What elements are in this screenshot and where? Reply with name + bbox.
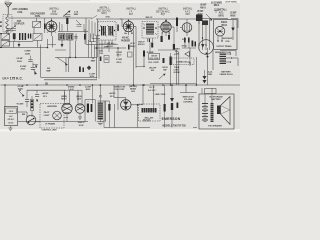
- svg-text:BALLAST: BALLAST: [145, 116, 155, 119]
- svg-text:+40 MF.: +40 MF.: [109, 92, 116, 95]
- tube V6 pins: [77, 101, 79, 104]
- svg-text:OR D.C.: OR D.C.: [8, 119, 15, 121]
- wire cbias drop: [189, 58, 191, 66]
- capacitor C2: [44, 24, 46, 30]
- wire V4 pins: [186, 19, 188, 23]
- junction dots y57.5: [69, 57, 70, 58]
- osc coil secondary T-coil: [33, 34, 42, 41]
- svg-text:.05 MF: .05 MF: [197, 11, 204, 13]
- svg-text:I.F. FRAME: I.F. FRAME: [45, 123, 55, 126]
- wire bottom bus middle: [104, 127, 150, 129]
- svg-text:COIL: COIL: [225, 41, 230, 43]
- IF shield cap C3: [66, 18, 68, 25]
- svg-text:200 V.: 200 V.: [116, 55, 122, 57]
- wire pt bottom corner: [103, 120, 105, 128]
- wire heater bus y90 left: [27, 89, 66, 91]
- comb pins: [226, 53, 230, 55]
- tuning eye V7: [121, 100, 131, 110]
- oscillator coil L2: [33, 22, 41, 28]
- tube V4 internals: [186, 24, 188, 32]
- coil L3 secondary: [67, 34, 74, 41]
- svg-text:VOL.CON.: VOL.CON.: [149, 58, 159, 60]
- svg-text:OUTPUT TRANS.: OUTPUT TRANS.: [216, 45, 232, 48]
- svg-text:.01 MF: .01 MF: [230, 12, 237, 14]
- svg-text:+40 MF.: +40 MF.: [42, 92, 49, 95]
- svg-text:470MΩ: 470MΩ: [68, 86, 75, 89]
- vertical pair x66: [65, 58, 67, 73]
- svg-text:SW.: SW.: [22, 114, 26, 116]
- svg-text:465 KC: 465 KC: [122, 37, 130, 40]
- svg-text:COIL: COIL: [17, 11, 23, 14]
- plug pin blob: [201, 44, 205, 48]
- arrow diag mid: [57, 58, 66, 64]
- svg-text:6A8 (: 6A8 (: [101, 12, 107, 15]
- svg-text:MMF): MMF): [130, 46, 136, 48]
- wire heater links: [36, 121, 40, 123]
- electrolytic C14: [91, 104, 93, 112]
- wire junction: [47, 47, 49, 49]
- capacitor C11: [25, 99, 29, 101]
- wire eye right: [131, 104, 143, 106]
- V4 cathode resistor R2: [184, 38, 186, 43]
- wire tube V5 pin drops: [64, 90, 66, 100]
- svg-text:(METAL): (METAL): [218, 8, 227, 11]
- cable junction dots: [198, 44, 199, 45]
- cable connector block: [202, 21, 208, 26]
- speaker tube circle: [215, 26, 225, 36]
- rectifier arrows component: [203, 76, 207, 80]
- filter frame: [85, 100, 95, 122]
- volume control box: [149, 54, 160, 60]
- svg-text:200V.: 200V.: [90, 76, 95, 78]
- tube V3 envelope: [161, 22, 171, 32]
- arrow down: [19, 91, 23, 95]
- svg-text:400V.: 400V.: [86, 88, 91, 91]
- gang condenser section 2: [1, 41, 10, 47]
- tube V1 grid internals: [48, 23, 50, 30]
- tube V4 envelope: [182, 23, 192, 33]
- speaker cone: [221, 97, 231, 125]
- heater dashed box: [40, 104, 64, 129]
- capacitor C15: [108, 104, 110, 111]
- wire vertical pair x96.5: [96, 36, 98, 79]
- junction dots left bus: [26, 84, 28, 86]
- chassis double line: [41, 77, 97, 79]
- IF transformer T2 shield box: [142, 22, 158, 39]
- svg-text:HEATERS: HEATERS: [47, 105, 57, 108]
- tuning capacitor C1A: [6, 29, 16, 31]
- arrow mid: [159, 75, 164, 80]
- svg-text:455 KC.: 455 KC.: [106, 45, 114, 48]
- wire left edge ticks: [0, 33, 2, 34]
- wire top bus middle: [96, 18, 196, 20]
- resistor ballast dashed box: [139, 104, 161, 121]
- svg-text:2ND I.F.: 2ND I.F.: [145, 17, 153, 19]
- wire loop to bus: [7, 14, 9, 15]
- wire corner C8: [40, 45, 42, 78]
- wire gang bus: [8, 41, 33, 43]
- capacitor C6 electrolytic: [176, 18, 178, 27]
- tube V5 envelope: [62, 103, 72, 113]
- svg-text:455 KC.: 455 KC.: [138, 43, 145, 46]
- wire box to switch: [18, 111, 28, 113]
- wire bottom bus right stub: [193, 127, 197, 129]
- diode arrow vol: [185, 52, 190, 57]
- svg-text:I.F.= 175 K.C.: I.F.= 175 K.C.: [3, 77, 23, 81]
- svg-text:(5-25 MMF): (5-25 MMF): [211, 2, 222, 4]
- svg-text:OSC.: OSC.: [106, 16, 111, 18]
- speaker plug circle: [199, 40, 214, 55]
- plug box small: [205, 89, 217, 94]
- vertical x207.5 and x213: [207, 48, 209, 85]
- wire x114 eye drop: [113, 85, 115, 98]
- wire x118 drop: [117, 85, 119, 101]
- wire tube V6 pin drops: [77, 90, 79, 100]
- tube V1 envelope: [46, 21, 57, 32]
- IF transformer T1 shield box: [98, 22, 116, 41]
- svg-text:VOL. CONT.: VOL. CONT.: [148, 62, 159, 64]
- svg-text:60 CY.: 60 CY.: [8, 122, 14, 124]
- capacitor T2 bottom: [151, 43, 153, 48]
- small cap symbol: [214, 8, 218, 10]
- wire x118 mid drop: [117, 48, 119, 58]
- wire y66.5 link: [136, 66, 143, 68]
- resistor R1 bars: [19, 33, 21, 40]
- wire V1 pins: [51, 18, 53, 21]
- battery B1 cells: [202, 104, 208, 122]
- svg-text:GB: GB: [45, 84, 49, 86]
- arrow to ground: [61, 40, 63, 44]
- ballast resistor R4: [142, 108, 157, 113]
- wire bus y47 left: [1, 47, 49, 49]
- T2 winding block: [146, 24, 154, 35]
- svg-text:250Ω: 250Ω: [25, 53, 30, 55]
- svg-text:COMP.: COMP.: [24, 51, 31, 53]
- capacitor C5: [128, 45, 130, 50]
- svg-text:TO ANT.: TO ANT.: [16, 102, 24, 105]
- trimmer cap vertical: [75, 34, 77, 42]
- padder capacitor blob: [13, 33, 16, 39]
- capacitor C7 pair: [192, 41, 194, 47]
- wire main B- bus y85: [1, 84, 241, 86]
- svg-text:A.F.1: A.F.1: [219, 11, 225, 14]
- wire top right corners: [212, 19, 238, 29]
- svg-text:LIGHT: LIGHT: [44, 115, 51, 117]
- wire into V2: [120, 19, 123, 27]
- antenna: [5, 3, 12, 7]
- wire h y50 left: [55, 49, 66, 51]
- ground below box: [10, 126, 12, 128]
- svg-text:CONV.: CONV.: [50, 12, 58, 16]
- vertical x196: [196, 57, 198, 85]
- capacitor det out: [173, 44, 175, 50]
- svg-text:1-4 W.: 1-4 W.: [68, 88, 74, 91]
- wire bottom bus left: [18, 121, 88, 123]
- svg-text:COUPLER: COUPLER: [14, 23, 25, 25]
- wire T1 frame bottom: [102, 47, 109, 52]
- svg-text:CONTROL UNIT: CONTROL UNIT: [41, 130, 57, 132]
- svg-text:CON.: CON.: [175, 54, 180, 56]
- wire bus y57 middle: [55, 57, 97, 59]
- ground under PT: [97, 121, 104, 123]
- electrolytic C13: [87, 104, 89, 113]
- wire h y48: [94, 47, 126, 49]
- gang condenser frame: [1, 34, 10, 40]
- capacitor C16: [164, 104, 166, 112]
- svg-text:CONTROL: CONTROL: [183, 102, 193, 104]
- battery speaker box: [199, 94, 234, 129]
- switch S1: [26, 115, 36, 125]
- svg-text:25 V.: 25 V.: [43, 96, 48, 98]
- coupling bar right: [117, 25, 119, 32]
- svg-text:(6F5): (6F5): [219, 15, 224, 17]
- svg-text:47Ω: 47Ω: [182, 38, 186, 41]
- wire h y50 right: [158, 49, 177, 51]
- capacitor dark mid: [100, 57, 102, 62]
- svg-text:OUT.: OUT.: [77, 99, 82, 101]
- speaker socket comb: [220, 54, 227, 55]
- svg-text:(TOP VIEW): (TOP VIEW): [225, 2, 236, 4]
- wire pt top: [98, 100, 110, 102]
- wire v3 bottom parts: [161, 32, 163, 42]
- power line box: [5, 107, 18, 126]
- tube V3 grid mesh: [162, 22, 170, 32]
- wire gang vertical: [13, 42, 15, 48]
- svg-text:10 W.: 10 W.: [78, 125, 84, 127]
- svg-text:A.C.: A.C.: [9, 115, 13, 118]
- wire T1 pins down: [101, 40, 103, 47]
- svg-text:ANT.: ANT.: [17, 20, 22, 23]
- top right diag arrow: [206, 14, 211, 19]
- svg-text:EMERSON: EMERSON: [162, 117, 181, 121]
- padder box mid: [104, 56, 109, 63]
- capacitor bars2: [28, 34, 29, 39]
- wire ballast top lead: [153, 85, 155, 110]
- T1 primary winding: [101, 26, 102, 36]
- svg-text:BEAM: BEAM: [130, 88, 136, 91]
- capacitor C12: [36, 90, 38, 93]
- choke component: [211, 103, 214, 122]
- svg-text:1ST. I.F.: 1ST. I.F.: [107, 43, 114, 45]
- svg-text:400V.: 400V.: [18, 87, 24, 90]
- wire coil downs: [69, 40, 71, 58]
- svg-text:MICA: MICA: [214, 4, 220, 7]
- svg-text:200V.: 200V.: [17, 61, 23, 63]
- wire y44.5 IF1: [96, 44, 118, 46]
- svg-text:LINE CORD: LINE CORD: [155, 94, 166, 96]
- svg-text:110 V.: 110 V.: [9, 111, 14, 113]
- wire box internals: [204, 94, 206, 104]
- coil L3 primary: [59, 34, 66, 41]
- svg-text:SW.: SW.: [151, 70, 155, 72]
- arrow down gang: [18, 42, 20, 44]
- wire V1 left feed: [45, 18, 47, 24]
- speaker cable wires: [198, 19, 200, 51]
- svg-text:A.C.-D.C.: A.C.-D.C.: [148, 89, 157, 92]
- wire V2 pins: [128, 19, 130, 21]
- svg-text:6F6: 6F6: [185, 12, 190, 16]
- wire drops to tubes: [66, 85, 68, 97]
- svg-text:MODELS 736-737-738: MODELS 736-737-738: [162, 125, 186, 128]
- wire top bus left: [8, 17, 92, 19]
- svg-text:COIL: COIL: [99, 53, 104, 55]
- tube V2 internals: [125, 23, 127, 30]
- wire T2 pins: [147, 38, 149, 42]
- svg-text:GND.: GND.: [208, 74, 213, 76]
- svg-text:6V. STORAGE: 6V. STORAGE: [209, 95, 223, 98]
- wire h y31.5: [58, 31, 88, 33]
- junction dots bus: [162, 84, 164, 86]
- ground under V6: [78, 116, 82, 118]
- T1 trimmer arrows: [100, 25, 107, 37]
- wire corners above box: [180, 85, 197, 93]
- svg-text:P.M. SPEAKER: P.M. SPEAKER: [208, 125, 222, 128]
- wire V1 right pair: [59, 22, 61, 32]
- T2 side dots: [143, 27, 145, 29]
- power transformer T4 winding: [98, 103, 103, 120]
- wire comb frame: [220, 51, 238, 67]
- svg-text:(C-BIAS CELL): (C-BIAS CELL): [176, 61, 190, 64]
- svg-text:200V.: 200V.: [20, 68, 26, 70]
- tube V6 envelope: [75, 104, 85, 114]
- capacitor C10 electrolytic mid: [170, 57, 172, 66]
- leader line: [91, 16, 97, 20]
- capacitor C9 dark: [143, 51, 145, 57]
- trimmer 1st osc: [76, 20, 81, 25]
- svg-text:BATTERY: BATTERY: [221, 70, 231, 73]
- paper background: [0, 0, 240, 132]
- paper texture: [0, 3, 240, 129]
- vertical pair x176: [176, 50, 178, 85]
- loop antenna L1: [3, 15, 12, 33]
- component small mid: [128, 52, 133, 57]
- svg-text:200 V.: 200 V.: [116, 62, 122, 64]
- ballast pin circles: [143, 119, 145, 121]
- svg-text:FIELD: FIELD: [221, 22, 228, 24]
- svg-text:600V.: 600V.: [230, 15, 236, 17]
- wire osc coil down: [33, 28, 35, 34]
- svg-text:400 V.: 400 V.: [200, 6, 206, 9]
- tube V2 envelope: [123, 21, 133, 31]
- svg-text:25 V.: 25 V.: [110, 96, 115, 98]
- capacitor dark det: [163, 58, 165, 63]
- svg-text:VOL.CONT.: VOL.CONT.: [114, 89, 125, 91]
- wire power box feed: [4, 85, 6, 107]
- svg-text:400V.: 400V.: [197, 13, 203, 16]
- rectifier arrow right box: [231, 28, 234, 32]
- wire cable tops: [196, 18, 212, 20]
- wire IF1 frame verticals: [97, 19, 99, 58]
- wire eye out drop: [137, 105, 139, 128]
- svg-text:.05 MF: .05 MF: [200, 5, 207, 7]
- wire corner x93: [93, 34, 95, 43]
- wire gang link: [48, 44, 57, 46]
- wire heater bus extension: [66, 89, 82, 91]
- svg-text:CON.: CON.: [35, 15, 41, 18]
- capacitor C17 small: [177, 103, 179, 109]
- svg-text:PADDER: PADDER: [121, 39, 130, 42]
- wire right box drops: [201, 88, 203, 94]
- resistor R3 vertical: [31, 100, 34, 111]
- T1 secondary winding: [108, 26, 109, 36]
- capacitor C4: [84, 34, 86, 40]
- pilot resistor component: [171, 85, 173, 98]
- wire vertical pair x133: [133, 30, 135, 85]
- wire x114-118 corners: [115, 101, 119, 128]
- C-bias cell box: [172, 58, 194, 65]
- T4 core lines: [103, 101, 105, 122]
- svg-text:(METAL): (METAL): [129, 85, 137, 88]
- wire V3 pins: [165, 20, 167, 22]
- wire nested corners into IF1: [86, 18, 96, 45]
- wire eye stem: [114, 98, 126, 100]
- wire out cluster: [184, 43, 186, 49]
- svg-text:CABLE PLUG: CABLE PLUG: [219, 73, 233, 76]
- svg-text:0.5-MF: 0.5-MF: [16, 58, 23, 60]
- component cluster mid: [79, 67, 81, 73]
- wire osc verticals nest: [88, 40, 90, 58]
- junction dots right bottom: [171, 84, 173, 86]
- terminal marks left edge: [0, 22, 2, 23]
- junction dots bottom bus: [66, 84, 68, 86]
- grid cap trimmer: [63, 12, 69, 17]
- wire x174 det: [173, 27, 175, 50]
- svg-text:BATTERY: BATTERY: [211, 98, 221, 101]
- tube V5 pins: [64, 101, 66, 104]
- wire V1 stem down: [52, 36, 54, 48]
- speaker tube leads: [217, 36, 219, 41]
- svg-text:470Ω: 470Ω: [181, 45, 186, 48]
- speaker plug box: [214, 20, 238, 50]
- svg-text:6K7: 6K7: [129, 12, 134, 16]
- output transformer T3: [196, 15, 203, 22]
- diamond cap: [87, 66, 91, 71]
- svg-text:6Q7: 6Q7: [161, 12, 166, 16]
- pilot lamp P1: [53, 111, 62, 120]
- svg-text:P.T.: P.T.: [99, 97, 103, 99]
- wire second bus line: [150, 82, 197, 84]
